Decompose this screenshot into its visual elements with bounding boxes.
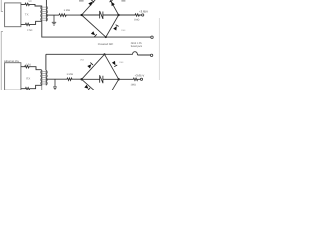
svg-text:+3.65 V: +3.65 V [135,73,145,77]
svg-text:TX: TX [25,12,29,16]
svg-text:Powered NIC: Powered NIC [98,43,114,46]
svg-text:+3.65V: +3.65V [139,9,148,13]
svg-text:1 MΩ: 1 MΩ [64,9,70,12]
svg-text:2.5Ω: 2.5Ω [27,29,32,32]
svg-text:1MΩ: 1MΩ [131,83,136,86]
svg-text:1MΩ: 1MΩ [134,19,139,22]
svg-text:RX: RX [26,77,30,81]
svg-text:fused jack: fused jack [131,45,143,48]
svg-text:2.5Ω: 2.5Ω [26,64,31,67]
svg-text:1 MΩ: 1 MΩ [67,73,73,76]
